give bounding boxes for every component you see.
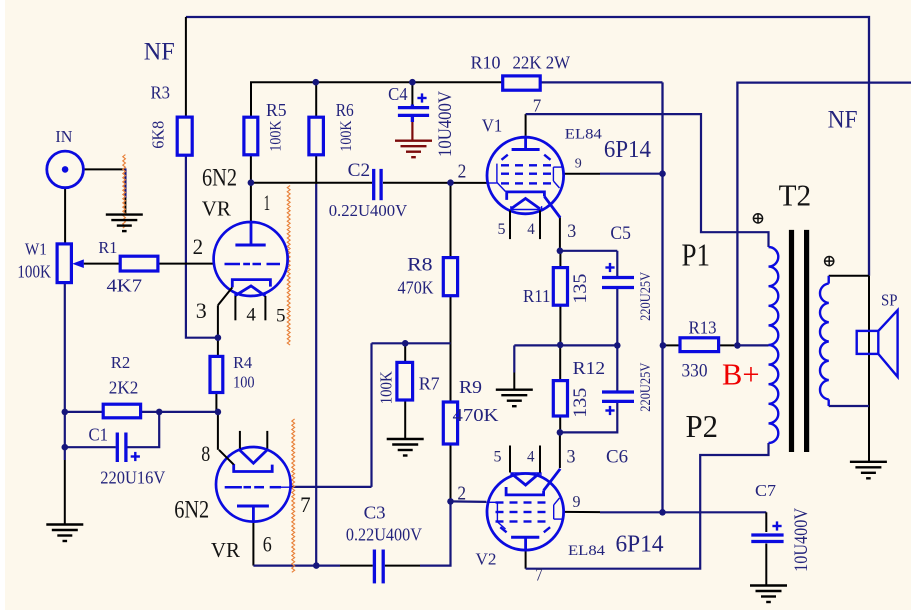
junction node R2/C1 xyxy=(156,409,163,416)
svg-text:6P14: 6P14 xyxy=(604,137,651,163)
wire C5 bottom / C6 top column xyxy=(616,288,618,393)
ground C4 (maroon) xyxy=(395,141,432,158)
wire R13 stubs xyxy=(663,344,680,346)
wire preamp supply rail y82 black xyxy=(251,82,503,117)
V1 grid rows dashed xyxy=(501,164,551,166)
V1 pin 5/4 stubs xyxy=(509,211,511,240)
svg-text:NF: NF xyxy=(144,38,175,65)
V2 left grid rail xyxy=(487,502,506,529)
speaker SP xyxy=(857,310,898,377)
wire R3 bottom to cathode node xyxy=(186,155,218,338)
wire node3 / R4 top xyxy=(217,305,219,356)
svg-text:22K 2W: 22K 2W xyxy=(513,53,571,73)
svg-text:100K: 100K xyxy=(267,120,284,151)
junction node C5/C6 xyxy=(614,342,621,349)
svg-text:220U25V: 220U25V xyxy=(638,272,654,321)
wire V1 pin9 to rail xyxy=(564,173,601,175)
V1 cathode bar xyxy=(507,192,545,200)
svg-text:VR: VR xyxy=(211,538,241,562)
svg-text:R4: R4 xyxy=(233,353,252,372)
junction node V2 grid/C3/R9 xyxy=(447,498,454,505)
junction node R6 bottom xyxy=(313,562,320,569)
svg-text:7: 7 xyxy=(535,565,543,585)
wire R2 node row xyxy=(65,411,103,413)
svg-text:100K: 100K xyxy=(17,262,51,282)
capacitor C4 10U400V xyxy=(398,105,429,123)
VR upper filament xyxy=(235,286,266,296)
wire secondary top to column xyxy=(829,275,869,277)
junction node C4 top xyxy=(409,79,416,86)
junction node C2/R8/V1 grid xyxy=(447,179,454,186)
capacitor C7 10U400V xyxy=(751,535,783,542)
svg-text:P1: P1 xyxy=(682,237,711,273)
svg-text:2: 2 xyxy=(193,234,204,259)
wire lower 6N2 plate pin6 down xyxy=(252,522,254,566)
svg-text:C1: C1 xyxy=(89,425,109,445)
svg-text:4: 4 xyxy=(527,221,535,238)
orange zigzag artifact over input ground wire xyxy=(123,155,126,229)
V2 grid rows dashed xyxy=(496,501,546,503)
wire lower 6N2 grid pin7 xyxy=(291,486,372,488)
junction node R4/R2 xyxy=(215,409,222,416)
svg-text:V1: V1 xyxy=(482,116,503,136)
wire speaker column black xyxy=(868,276,870,462)
wire C6 bottom to V2 pin3 node xyxy=(560,401,617,432)
resistor R12 135 xyxy=(553,381,567,416)
wire R7 top lead xyxy=(404,343,406,362)
junction node R6 top xyxy=(313,79,320,86)
svg-text:C2: C2 xyxy=(348,161,371,181)
svg-text:10U400V: 10U400V xyxy=(436,90,456,157)
resistor R9 470K xyxy=(443,402,457,444)
svg-text:R2: R2 xyxy=(111,353,131,372)
svg-text:135: 135 xyxy=(570,388,591,418)
svg-text:C3: C3 xyxy=(364,503,386,523)
svg-text:6: 6 xyxy=(263,532,272,557)
svg-text:VR: VR xyxy=(202,197,232,221)
svg-text:SP: SP xyxy=(881,291,898,310)
svg-text:5: 5 xyxy=(498,221,506,238)
capacitor C1 220U16V xyxy=(117,433,126,463)
left window edge strip xyxy=(0,0,5,610)
svg-text:R11: R11 xyxy=(523,286,551,306)
wire R3 top from NF run xyxy=(185,17,187,117)
svg-text:NF: NF xyxy=(828,107,858,134)
ground speaker xyxy=(850,462,887,479)
svg-text:6N2: 6N2 xyxy=(202,164,237,191)
wire V1 pin3 node to C5 xyxy=(560,250,617,252)
potentiometer W1 100K xyxy=(57,244,71,283)
wire NF top feedback run xyxy=(186,17,869,276)
wire V2 pin7 to T2 primary bottom (P2) xyxy=(525,551,527,569)
orange zigzag artifact right of lower 6N2 xyxy=(292,419,295,572)
wire R9 bottom to V2 grid node xyxy=(450,444,452,501)
svg-text:C5: C5 xyxy=(610,224,631,244)
svg-text:7: 7 xyxy=(533,96,542,116)
V1 pin3 diagonal xyxy=(544,197,560,218)
wire C4 top stem xyxy=(411,82,413,104)
wire R8-R9 link xyxy=(450,296,452,402)
wire cathode network node y345 xyxy=(514,344,617,346)
svg-text:5: 5 xyxy=(276,306,286,327)
svg-text:330: 330 xyxy=(682,361,708,381)
VR upper pin 3 diagonal xyxy=(218,287,232,305)
wire V1 pin3 lead xyxy=(559,217,561,251)
wire node down to lower grid xyxy=(370,343,372,487)
capacitor C5 220U25V xyxy=(602,278,634,288)
svg-text:135: 135 xyxy=(570,274,591,304)
svg-text:EL84: EL84 xyxy=(568,543,606,559)
V1 filament xyxy=(511,199,540,209)
resistor R4 100 xyxy=(210,356,223,392)
connector IN (input jack) xyxy=(47,151,84,188)
wire V2 pin3 lead xyxy=(559,432,561,468)
C4 maroon stem xyxy=(411,122,413,141)
wire plate node y183 (R5/C2/V1 grid) xyxy=(250,155,252,183)
wire C7 bottom to ground xyxy=(765,544,767,586)
svg-text:R5: R5 xyxy=(266,100,287,120)
svg-text:C7: C7 xyxy=(755,481,776,500)
VR lower pin stubs heater xyxy=(239,431,241,449)
svg-text:T2: T2 xyxy=(779,178,812,212)
ground R7 xyxy=(387,439,424,456)
resistor R10 22K 2W xyxy=(503,76,541,90)
wire R8 top lead xyxy=(450,183,452,258)
junction node R11/R12 xyxy=(557,342,564,349)
svg-text:6N2: 6N2 xyxy=(174,497,209,524)
junction node R2 left xyxy=(62,409,69,416)
wire R7 bottom to ground xyxy=(404,400,406,439)
VR upper pin 4/5 stubs xyxy=(234,296,236,320)
svg-text:3: 3 xyxy=(196,298,207,323)
V2 pin3 diagonal xyxy=(544,469,561,491)
svg-text:8: 8 xyxy=(201,441,210,466)
V2 filament xyxy=(511,473,539,485)
svg-text:0.22U400V: 0.22U400V xyxy=(329,201,408,220)
wire R1 to grid pin2 xyxy=(158,263,214,265)
junction node C1 left xyxy=(62,444,69,451)
secondary stubs xyxy=(828,276,830,284)
ground W1/R2/C1 xyxy=(46,525,83,542)
resistor R8 470K xyxy=(443,258,457,296)
wire R7/R8 node row xyxy=(372,342,451,344)
svg-text:2K2: 2K2 xyxy=(109,377,139,397)
svg-text:EL84: EL84 xyxy=(565,127,603,143)
junction node V1 pin9 rail xyxy=(659,170,666,177)
wire B+ supply from right edge xyxy=(737,83,911,346)
orange zigzag artifact right of upper 6N2 xyxy=(287,186,290,346)
tube V2 EL84: envelope xyxy=(487,474,564,551)
junction node rail/R13 xyxy=(660,342,667,349)
svg-text:4: 4 xyxy=(246,304,256,325)
wire bottom row to C3 xyxy=(253,564,340,566)
junction node R7/R8/R9 xyxy=(402,340,409,347)
V1 grid angled end dashes xyxy=(502,155,508,160)
VR lower plate (pin 6) xyxy=(237,505,269,508)
svg-text:2: 2 xyxy=(457,484,466,505)
svg-text:R10: R10 xyxy=(471,53,501,73)
svg-text:4K7: 4K7 xyxy=(107,276,143,296)
capacitor C3 0.22U400V xyxy=(374,550,383,584)
svg-text:R12: R12 xyxy=(573,358,606,378)
svg-text:V2: V2 xyxy=(476,550,497,569)
VR lower cathode bracket xyxy=(234,464,273,472)
svg-text:R8: R8 xyxy=(407,255,433,276)
wire left column W1 bottom to ground xyxy=(64,283,66,460)
svg-text:9: 9 xyxy=(573,492,581,511)
V2 pin 5/4 stubs xyxy=(509,446,511,473)
resistor R13 330 xyxy=(680,338,719,352)
wire R4 bottom node xyxy=(215,393,217,412)
wire R12 leads xyxy=(559,345,561,380)
VR lower filament xyxy=(239,449,269,463)
svg-text:7: 7 xyxy=(300,492,311,517)
wire input jack down to W1 xyxy=(64,188,66,244)
tube VR lower 6N2 triode: envelope xyxy=(216,447,291,522)
svg-text:R3: R3 xyxy=(151,83,171,103)
svg-text:W1: W1 xyxy=(25,239,47,258)
resistor R11 135 xyxy=(553,268,567,306)
wire B+ node to T2 center tap xyxy=(737,344,768,346)
wire secondary bottom to column xyxy=(829,405,869,407)
V1 plate (pin 7) xyxy=(524,136,527,149)
V2 grid angled end dashes xyxy=(500,527,506,532)
junction node V1 pin3/R11/C5 xyxy=(557,248,564,255)
VR lower pin 8 diagonal xyxy=(219,450,234,465)
V1 right grid rail xyxy=(553,167,562,188)
svg-text:C4: C4 xyxy=(388,84,408,104)
wire C1 row xyxy=(65,446,116,448)
tube VR upper 6N2 triode: envelope xyxy=(214,222,288,296)
junction node B+/R13/center tap xyxy=(734,342,741,349)
svg-text:P2: P2 xyxy=(686,408,719,444)
wire V1 pin7 to T2 primary top (P1) xyxy=(525,114,527,136)
svg-text:R7: R7 xyxy=(419,373,440,393)
svg-text:100: 100 xyxy=(233,373,255,392)
V2 plate (pin 7) xyxy=(511,536,539,539)
junction node 3 cathode/R3/R4 xyxy=(215,334,222,341)
transformer T2 secondary coil xyxy=(820,284,829,400)
svg-text:0.22U400V: 0.22U400V xyxy=(346,525,422,545)
svg-text:R13: R13 xyxy=(689,318,717,338)
phase dot primary xyxy=(753,214,762,223)
wire V2 pin9 to rail and C7 xyxy=(563,511,600,513)
ground C7 xyxy=(750,586,787,603)
V1 left grid rail xyxy=(487,164,506,192)
tube V1 EL84: envelope xyxy=(487,137,564,214)
resistor R1 4K7 xyxy=(120,256,158,271)
wire C3 right to V2 grid node xyxy=(385,565,420,567)
wire R6 leads xyxy=(315,82,317,117)
V2 cathode bar xyxy=(506,487,543,495)
VR lower grid (pin 7) dashed xyxy=(225,486,281,489)
resistor R3 6K8 xyxy=(177,117,192,155)
wire screen rail vertical x662 xyxy=(661,82,663,512)
resistor R2 2K2 xyxy=(103,404,140,418)
svg-text:5: 5 xyxy=(494,449,502,466)
ground input jack xyxy=(106,215,143,232)
svg-text:2: 2 xyxy=(458,162,467,183)
junction node V2 pin3/R12/C6 xyxy=(557,429,564,436)
wire R10 right to screen rail corner xyxy=(540,81,662,83)
VR upper grid (pin 2) dashed xyxy=(225,263,281,266)
svg-text:220U16V: 220U16V xyxy=(100,467,165,487)
VR upper plate (pin 1) xyxy=(250,222,253,244)
svg-text:9: 9 xyxy=(575,157,582,172)
svg-text:6K8: 6K8 xyxy=(149,121,168,149)
phase dot secondary xyxy=(825,257,834,266)
svg-text:220U25V: 220U25V xyxy=(638,363,654,412)
svg-text:100K: 100K xyxy=(338,120,355,151)
ground cathode network xyxy=(496,390,533,407)
svg-text:R9: R9 xyxy=(459,377,482,397)
wire R11 leads xyxy=(559,251,561,268)
VR upper cathode bracket xyxy=(232,280,270,288)
svg-text:470K: 470K xyxy=(453,405,499,425)
resistor R5 100K xyxy=(244,117,258,155)
capacitor C6 220U25V xyxy=(602,392,634,401)
wire input jack to ground xyxy=(84,168,126,170)
transformer T2 core bars xyxy=(789,230,794,452)
wire V2 grid pin2 xyxy=(451,500,487,503)
wire W1 wiper to R1 xyxy=(84,263,121,265)
svg-text:470K: 470K xyxy=(398,277,434,297)
svg-text:4: 4 xyxy=(527,449,535,466)
svg-text:3: 3 xyxy=(567,221,576,242)
svg-text:6P14: 6P14 xyxy=(616,532,664,558)
capacitor C2 0.22U400V xyxy=(374,169,381,200)
svg-text:1: 1 xyxy=(264,190,271,215)
resistor R7 100K xyxy=(397,362,413,400)
svg-text:100K: 100K xyxy=(377,371,396,404)
svg-text:R6: R6 xyxy=(336,100,354,120)
resistor R6 100K xyxy=(309,117,324,155)
svg-text:IN: IN xyxy=(55,127,72,146)
junction node plate1/R5/C2 xyxy=(248,179,255,186)
svg-text:B+: B+ xyxy=(722,357,760,392)
junction node V2 pin9 rail xyxy=(659,509,666,516)
V2 right grid rail xyxy=(554,498,562,519)
svg-text:10U400V: 10U400V xyxy=(792,507,812,572)
svg-text:3: 3 xyxy=(567,447,576,468)
svg-text:R1: R1 xyxy=(98,238,117,257)
transformer T2 primary coil xyxy=(769,247,779,443)
svg-text:C6: C6 xyxy=(606,448,628,468)
